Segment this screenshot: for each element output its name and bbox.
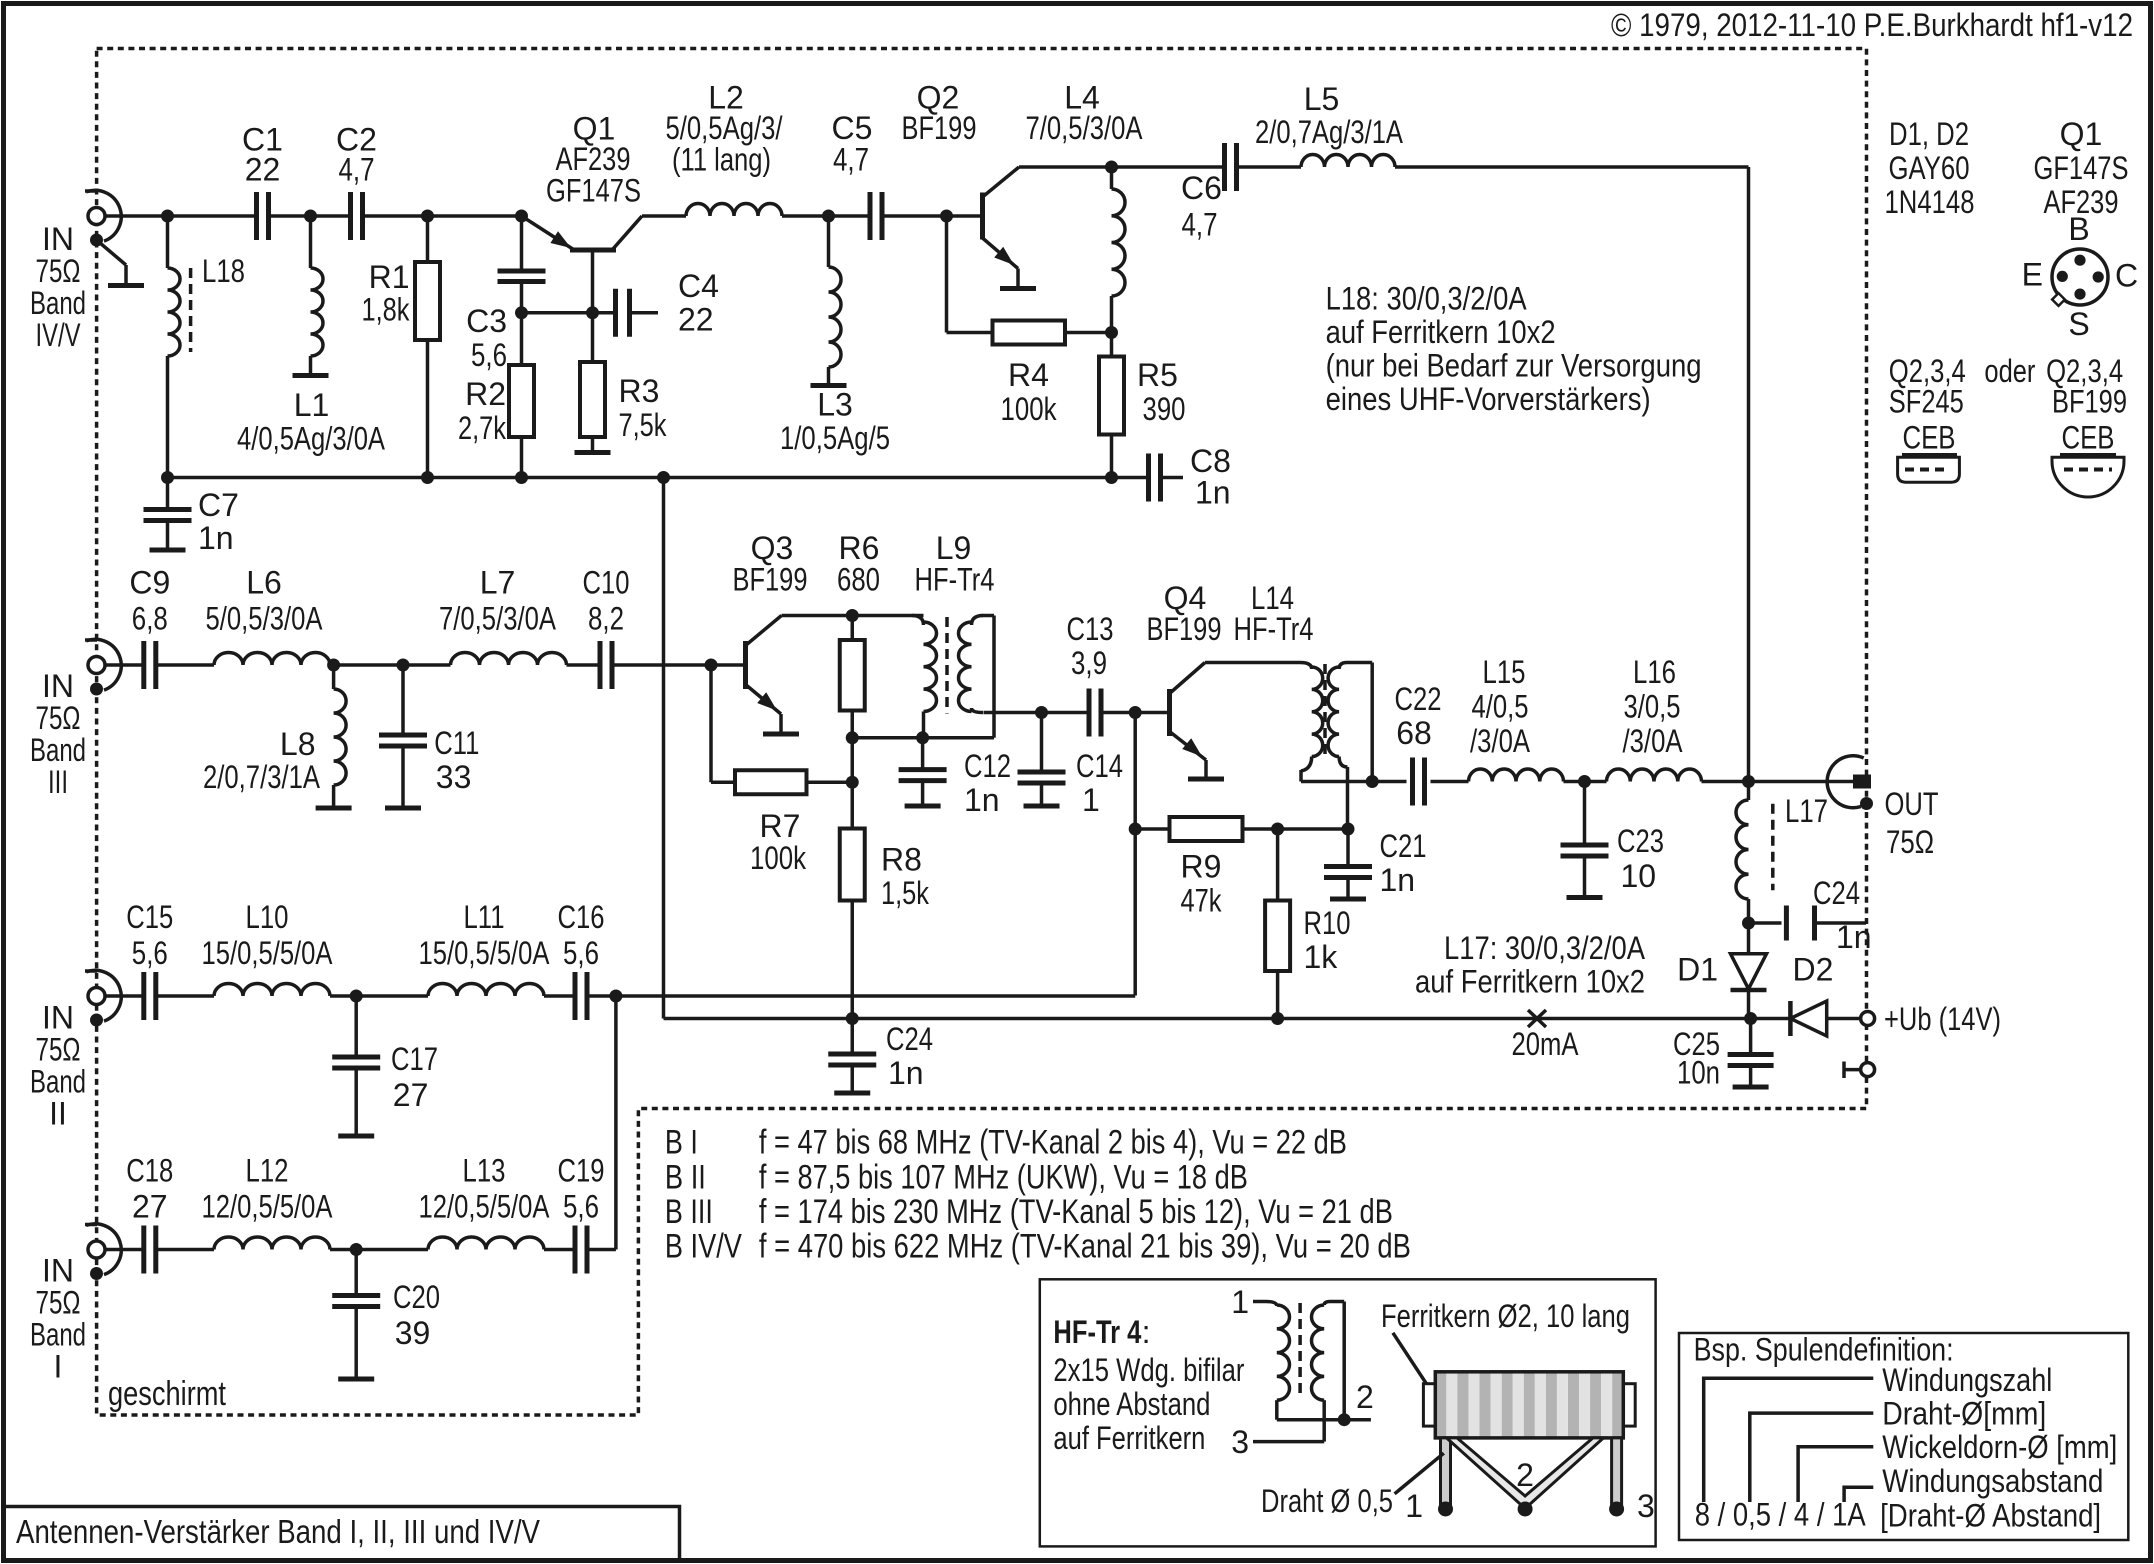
diode D1 (1747, 923, 1751, 954)
wire C3 to C4 (522, 311, 616, 315)
transformer L9 secondary (959, 622, 972, 712)
svg-text:R1: R1 (369, 259, 410, 295)
wire Q1 collector to L2 (642, 214, 686, 218)
svg-text:1k: 1k (1304, 939, 1339, 975)
svg-text:C11: C11 (434, 725, 479, 761)
transistor Q1 (570, 248, 616, 253)
svg-text:1,5k: 1,5k (881, 875, 930, 911)
svg-text:39: 39 (395, 1315, 431, 1351)
HF-Tr4 box (1040, 1279, 1656, 1546)
svg-text:2: 2 (1356, 1379, 1374, 1415)
svg-text:68: 68 (1396, 715, 1432, 751)
svg-text:L15: L15 (1483, 654, 1526, 690)
inductor L4 (1110, 167, 1114, 189)
svg-text:75Ω: 75Ω (36, 1285, 81, 1321)
node C20 junction (350, 1243, 363, 1256)
svg-text:GAY60: GAY60 (1889, 150, 1970, 186)
svg-text:III: III (48, 764, 68, 800)
Draht callout (1395, 1453, 1444, 1494)
svg-text:75Ω: 75Ω (36, 1032, 81, 1068)
wire IN to C15 (105, 994, 144, 998)
svg-text:4/0,5: 4/0,5 (1472, 689, 1529, 725)
svg-text:Band: Band (30, 1317, 86, 1353)
wire R4 to R5 (1065, 331, 1112, 335)
wire L11 to C16 (544, 994, 575, 998)
svg-text:Band: Band (30, 732, 86, 768)
svg-text:5/0,5/3/0A: 5/0,5/3/0A (206, 601, 324, 637)
svg-text:BF199: BF199 (733, 562, 808, 598)
wire R9 line (1133, 713, 1137, 996)
svg-text:I: I (54, 1349, 63, 1385)
svg-text:R3: R3 (619, 373, 660, 409)
wire C1 to C2 (269, 214, 351, 218)
svg-text:12/0,5/5/0A: 12/0,5/5/0A (419, 1189, 551, 1225)
wire L14 to C22 (1372, 780, 1406, 784)
svg-text:C12: C12 (964, 748, 1011, 784)
svg-text:27: 27 (132, 1189, 168, 1225)
inductor L18 (166, 216, 170, 268)
current marker 20mA (1528, 1010, 1546, 1027)
node L8 junction (327, 659, 340, 672)
svg-text:f = 174 bis 230 MHz (TV-Kanal: f = 174 bis 230 MHz (TV-Kanal 5 bis 12),… (759, 1193, 1393, 1231)
capacitor C15 (141, 972, 146, 1020)
capacitor C17 (354, 996, 358, 1057)
svg-text:R7: R7 (760, 808, 801, 844)
wire L12 to L13 (330, 1248, 428, 1252)
svg-text:1: 1 (1405, 1488, 1423, 1524)
svg-text:BF199: BF199 (2052, 383, 2127, 419)
node L14 junction (1366, 775, 1379, 788)
inductor L8 (332, 665, 336, 689)
wire L9 bottom bus (852, 736, 994, 740)
transistor Q2 (980, 193, 985, 240)
svg-text:3: 3 (1231, 1424, 1249, 1460)
terminal +Ub (1861, 1012, 1875, 1026)
svg-text:L18: 30/0,3/2/0A: L18: 30/0,3/2/0A (1326, 281, 1528, 317)
capacitor C2 (348, 192, 353, 240)
shield box (geschirmt) dashed outline (97, 49, 1867, 1416)
node C17 junction (350, 990, 363, 1003)
capacitor C1 (254, 192, 259, 240)
svg-text:ohne Abstand: ohne Abstand (1053, 1386, 1210, 1422)
svg-text:C14: C14 (1076, 748, 1123, 784)
transformer L14 core (1323, 664, 1327, 759)
HF-Tr4 symbol core (1298, 1303, 1302, 1398)
node Q4 base junction (1129, 706, 1142, 719)
svg-text:L5: L5 (1304, 81, 1340, 117)
Ferrite coil body (1423, 1384, 1437, 1426)
svg-text:Band: Band (30, 1064, 86, 1100)
capacitor C25 (1749, 1019, 1753, 1055)
capacitor C10 (598, 641, 603, 689)
svg-text:C13: C13 (1067, 611, 1114, 647)
capacitor C11 (401, 665, 405, 735)
svg-text:R4: R4 (1008, 357, 1049, 393)
Ferrite coil lead 1 (1441, 1438, 1451, 1506)
svg-text:100k: 100k (1001, 391, 1058, 427)
svg-text:5,6: 5,6 (563, 1189, 599, 1225)
svg-text:10: 10 (1621, 858, 1657, 894)
wire Q2 collector rail (1019, 165, 1225, 169)
svg-text:OUT: OUT (1885, 786, 1939, 822)
svg-text:27: 27 (393, 1077, 429, 1113)
svg-text:390: 390 (1143, 391, 1186, 427)
Spulendefinition brackets (1704, 1378, 1874, 1502)
svg-text:100k: 100k (750, 840, 807, 876)
node R7 junction (846, 776, 859, 789)
node F junction (940, 210, 953, 223)
inductor L2 (686, 203, 782, 216)
Ferrite coil lead 3 (1612, 1438, 1622, 1506)
svg-text:Windungszahl: Windungszahl (1882, 1362, 2052, 1398)
svg-text:5,6: 5,6 (132, 935, 168, 971)
svg-text:D2: D2 (1793, 952, 1834, 988)
svg-text:L13: L13 (463, 1153, 506, 1189)
svg-text:75Ω: 75Ω (1886, 824, 1934, 860)
svg-text:8,2: 8,2 (588, 601, 624, 637)
svg-text:22: 22 (678, 302, 714, 338)
connector IN Band IV/V (88, 208, 105, 225)
svg-text:C: C (2115, 258, 2138, 294)
svg-text:4,7: 4,7 (339, 152, 375, 188)
svg-text:f = 470 bis 622 MHz (TV-Kanal: f = 470 bis 622 MHz (TV-Kanal 21 bis 39)… (759, 1228, 1411, 1266)
wire Q2 base to R4 (945, 216, 949, 333)
svg-text:Ferritkern Ø2, 10 lang: Ferritkern Ø2, 10 lang (1381, 1298, 1630, 1334)
svg-text:C24: C24 (886, 1021, 933, 1057)
svg-text:75Ω: 75Ω (36, 700, 81, 736)
svg-text:S: S (2068, 306, 2089, 342)
capacitor C13 (1087, 689, 1092, 737)
svg-text:L18: L18 (202, 253, 245, 289)
svg-text:C9: C9 (129, 565, 170, 601)
svg-text:L17: 30/0,3/2/0A: L17: 30/0,3/2/0A (1444, 930, 1646, 966)
svg-text:auf Ferritkern: auf Ferritkern (1053, 1420, 1205, 1456)
svg-text:L12: L12 (246, 1153, 289, 1189)
wire L5 to OUT column (1395, 165, 1749, 169)
svg-text:1,8k: 1,8k (362, 292, 411, 328)
svg-text:C24: C24 (1813, 875, 1860, 911)
svg-text:L11: L11 (464, 899, 505, 935)
capacitor C3 (520, 216, 524, 271)
svg-text:47k: 47k (1181, 883, 1223, 919)
svg-text:3: 3 (1637, 1488, 1655, 1524)
capacitor C4 (613, 289, 618, 337)
inductor L6 (214, 652, 330, 665)
transistor Q3 (743, 641, 748, 689)
capacitor C16 (573, 972, 578, 1020)
node C14 junction (1035, 706, 1048, 719)
resistor R8 (851, 782, 855, 828)
svg-text:Q1: Q1 (2060, 116, 2103, 152)
svg-text:1N4148: 1N4148 (1885, 184, 1975, 220)
resistor R5 (1110, 333, 1114, 357)
svg-text:15/0,5/5/0A: 15/0,5/5/0A (419, 935, 551, 971)
svg-text:1/0,5Ag/5: 1/0,5Ag/5 (780, 420, 890, 456)
wire C10 to Q3 base (612, 663, 744, 667)
svg-text:GF147S: GF147S (2034, 150, 2129, 186)
transformer L14 secondary (1328, 667, 1339, 757)
Spulendefinition box (1679, 1333, 2128, 1540)
wire L16 to OUT (1702, 780, 1856, 784)
connector IN Band II (88, 988, 105, 1005)
HF-Tr4 symbol primary (1253, 1300, 1266, 1304)
inductor L11 (428, 984, 544, 997)
svg-text:C17: C17 (391, 1041, 438, 1077)
svg-text:1n: 1n (888, 1055, 924, 1091)
svg-text:IN: IN (42, 1000, 74, 1036)
svg-text:IV/V: IV/V (36, 317, 81, 353)
wire L2 to C5 (782, 214, 870, 218)
connector IN Band III (88, 657, 105, 674)
inductor L17 (1747, 782, 1751, 801)
node OUT junction (1742, 775, 1755, 788)
svg-text:II: II (49, 1096, 67, 1132)
svg-text:f = 87,5 bis 107 MHz (UKW), Vu: f = 87,5 bis 107 MHz (UKW), Vu = 18 dB (759, 1158, 1248, 1196)
wire Q4 collector (1205, 661, 1300, 665)
capacitor C14 (1040, 713, 1044, 773)
svg-text:BF199: BF199 (1147, 611, 1222, 647)
svg-text:B III: B III (665, 1193, 713, 1231)
wire stage1 supply rail (168, 476, 1149, 480)
IN IV/V shield stub to ground (97, 240, 127, 265)
HF-Tr4 pin 2 node (1338, 1413, 1351, 1426)
svg-text:1: 1 (1231, 1284, 1249, 1320)
svg-text:CEB: CEB (1903, 420, 1956, 456)
capacitor C21 (1346, 829, 1350, 867)
node L4 top junction (1105, 161, 1118, 174)
inductor L13 (428, 1237, 544, 1250)
svg-text:SF245: SF245 (1889, 383, 1964, 419)
svg-text:D1, D2: D1, D2 (1889, 116, 1969, 152)
resistor R6 (851, 616, 855, 641)
capacitor C12 (921, 738, 925, 770)
node R10 top junction (1271, 823, 1284, 836)
svg-text:R10: R10 (1304, 905, 1351, 941)
svg-text:2: 2 (1516, 1457, 1534, 1493)
Ferritkern callout (1393, 1333, 1432, 1392)
svg-text:22: 22 (245, 152, 281, 188)
wire IN to C1 (105, 214, 257, 218)
svg-text:Antennen-Verstärker Band I, II: Antennen-Verstärker Band I, II, III und … (16, 1513, 540, 1550)
node R6 top junction (846, 609, 859, 622)
svg-text:2x15 Wdg. bifilar: 2x15 Wdg. bifilar (1053, 1352, 1244, 1388)
wire Q3 output line (984, 711, 1089, 715)
transformer L9 core (945, 617, 949, 714)
svg-text:L3: L3 (817, 387, 853, 423)
svg-text:/3/0A: /3/0A (1470, 723, 1531, 759)
svg-text:auf Ferritkern 10x2: auf Ferritkern 10x2 (1326, 314, 1556, 350)
node Q3 base junction (705, 659, 718, 672)
svg-text:IN: IN (42, 1253, 74, 1289)
wire C6 to L5 (1237, 165, 1302, 169)
svg-text:C10: C10 (583, 565, 630, 601)
svg-text:680: 680 (837, 562, 880, 598)
resistor R4 (993, 321, 1066, 345)
node rail B junctions (846, 1012, 859, 1025)
inductor L1 (309, 216, 313, 268)
svg-text:C6: C6 (1181, 170, 1222, 206)
svg-text:B IV/V: B IV/V (665, 1228, 742, 1266)
svg-text:f = 47 bis 68 MHz (TV-Kanal 2: f = 47 bis 68 MHz (TV-Kanal 2 bis 4), Vu… (759, 1124, 1347, 1162)
svg-text:(11 lang): (11 lang) (672, 142, 771, 178)
svg-text:R9: R9 (1181, 849, 1222, 885)
svg-text:B I: B I (665, 1124, 698, 1162)
svg-text:Windungsabstand: Windungsabstand (1882, 1463, 2103, 1499)
resistor R9 (1170, 817, 1243, 841)
inductor L7 (451, 652, 567, 665)
svg-text:2/0,7Ag/3/1A: 2/0,7Ag/3/1A (1255, 114, 1404, 150)
svg-text:L7: L7 (480, 565, 516, 601)
svg-text:C4: C4 (678, 268, 719, 304)
svg-text:3/0,5: 3/0,5 (1624, 689, 1681, 725)
svg-text:8 / 0,5 / 4 / 1A: 8 / 0,5 / 4 / 1A (1695, 1497, 1867, 1533)
capacitor C5 (868, 192, 873, 240)
wire IN to C9 (105, 663, 144, 667)
svg-text:D1: D1 (1677, 952, 1718, 988)
node B junction (304, 210, 317, 223)
svg-text:3,9: 3,9 (1071, 645, 1107, 681)
svg-text:L16: L16 (1633, 654, 1676, 690)
inductor L3 (827, 216, 831, 267)
node rail junctions (161, 471, 174, 484)
svg-text:C18: C18 (126, 1153, 173, 1189)
svg-text:R8: R8 (881, 842, 922, 878)
node E junction (822, 210, 835, 223)
node C11 junction (397, 659, 410, 672)
inductor L12 (214, 1237, 330, 1250)
svg-text:L6: L6 (246, 565, 282, 601)
wire L13 to C19 (544, 1248, 575, 1252)
svg-text:7/0,5/3/0A: 7/0,5/3/0A (1026, 110, 1144, 146)
capacitor C18 (141, 1226, 146, 1274)
svg-text:IN: IN (42, 668, 74, 704)
wire R6 to R7 junction (851, 738, 855, 782)
transformer L9 primary (912, 616, 924, 626)
wire L15 to L16 (1564, 780, 1607, 784)
svg-text:4,7: 4,7 (1182, 207, 1218, 243)
node C21 junction (1342, 823, 1355, 836)
terminal Ub ground (1861, 1063, 1875, 1077)
transformer L14 primary (1300, 663, 1312, 670)
svg-text:1n: 1n (1380, 862, 1416, 898)
resistor R7 (709, 665, 713, 782)
wire C13 to Q4 base (1101, 711, 1168, 715)
capacitor C24 bottom (851, 1019, 855, 1055)
node base junction (586, 306, 599, 319)
wire L10 to L11 (330, 994, 428, 998)
capacitor C6 (1222, 143, 1227, 191)
node D junction (515, 210, 528, 223)
svg-text:15/0,5/5/0A: 15/0,5/5/0A (202, 935, 334, 971)
wire L6 to L7 (330, 663, 451, 667)
capacitor C24 decoupling (1749, 921, 1782, 925)
svg-text:E: E (2022, 257, 2043, 293)
svg-text:Draht-Ø[mm]: Draht-Ø[mm] (1882, 1396, 2046, 1432)
capacitor C19 (573, 1226, 578, 1274)
svg-text:C19: C19 (558, 1153, 605, 1189)
svg-text:R5: R5 (1137, 357, 1178, 393)
wire C18 to L12 (156, 1248, 214, 1252)
capacitor C8 (1146, 454, 1151, 502)
diode D2 (1751, 1017, 1791, 1021)
wire C5 to Q2 base (882, 214, 980, 218)
node C23 junction (1578, 775, 1591, 788)
svg-text:C15: C15 (126, 899, 173, 935)
svg-text:2,7k: 2,7k (458, 410, 507, 446)
title box (6, 1507, 680, 1559)
svg-text:Wickeldorn-Ø [mm]: Wickeldorn-Ø [mm] (1882, 1429, 2117, 1465)
connector IN Band I (88, 1241, 105, 1258)
svg-text::: : (1142, 1314, 1151, 1350)
svg-text:75Ω: 75Ω (36, 253, 81, 289)
svg-text:10n: 10n (1677, 1055, 1720, 1091)
node R9 left junction (1129, 823, 1142, 836)
svg-text:7,5k: 7,5k (619, 407, 668, 443)
Ferrite coil lead 2 V (1447, 1438, 1604, 1509)
connector OUT (1827, 756, 1864, 808)
svg-text:C7: C7 (198, 487, 239, 523)
HF-Tr4 symbol secondary (1311, 1305, 1324, 1400)
inductor L15 (1469, 769, 1564, 782)
svg-text:HF-Tr4: HF-Tr4 (915, 562, 995, 598)
wire supply rail B (664, 1017, 1751, 1021)
svg-text:[Draht-Ø Abstand]: [Draht-Ø Abstand] (1880, 1498, 2101, 1534)
node C junction (421, 210, 434, 223)
svg-text:B: B (2068, 211, 2089, 247)
svg-text:C3: C3 (466, 303, 507, 339)
wire C15 to L10 (156, 994, 214, 998)
inductor L16 (1607, 769, 1702, 782)
node R5 top junction (1105, 326, 1118, 339)
wire rail A (587, 994, 1135, 998)
svg-text:L17: L17 (1785, 793, 1828, 829)
svg-text:R2: R2 (465, 376, 506, 412)
svg-text:4/0,5Ag/3/0A: 4/0,5Ag/3/0A (237, 421, 386, 457)
svg-text:CEB: CEB (2062, 420, 2115, 456)
node L9 bottom junctions (846, 731, 859, 744)
svg-text:20mA: 20mA (1512, 1026, 1580, 1062)
inductor L5 (1301, 155, 1395, 168)
wire C2 to Q1 (363, 214, 522, 218)
svg-text:BF199: BF199 (902, 110, 977, 146)
wire C9 to L6 (156, 663, 214, 667)
svg-text:IN: IN (42, 221, 74, 257)
svg-text:GF147S: GF147S (546, 173, 641, 209)
capacitor C9 (141, 641, 146, 689)
svg-text:auf Ferritkern 10x2: auf Ferritkern 10x2 (1415, 964, 1645, 1000)
svg-text:1n: 1n (1195, 475, 1231, 511)
resistor R2 (520, 313, 524, 365)
svg-text:eines UHF-Vorverstärkers): eines UHF-Vorverstärkers) (1326, 381, 1651, 417)
svg-text:Draht Ø 0,5: Draht Ø 0,5 (1261, 1483, 1393, 1519)
svg-text:2/0,7/3/1A: 2/0,7/3/1A (203, 759, 321, 795)
svg-text:4,7: 4,7 (833, 142, 869, 178)
svg-text:oder: oder (1984, 353, 2035, 389)
resistor R10 (1276, 829, 1280, 901)
node L17 bottom junction (1742, 917, 1755, 930)
node G junction (515, 306, 528, 319)
resistor R1 (426, 216, 430, 262)
svg-text:7/0,5/3/0A: 7/0,5/3/0A (439, 601, 557, 637)
node A junction (161, 210, 174, 223)
node rail A junction (609, 990, 622, 1003)
svg-text:geschirmt: geschirmt (108, 1375, 226, 1413)
svg-text:© 1979, 2012-11-10 P.E.Burkhar: © 1979, 2012-11-10 P.E.Burkhardt hf1-v12 (1611, 7, 2133, 43)
wire rail1 down to supply rail B (662, 478, 666, 1019)
svg-text:C21: C21 (1380, 828, 1427, 864)
Q1 pinout diagram (2052, 249, 2108, 305)
wire Q3 collector rail (782, 614, 924, 618)
